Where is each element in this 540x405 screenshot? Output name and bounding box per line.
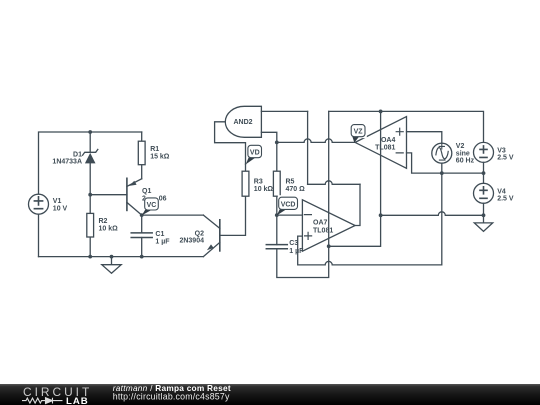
svg-text:VC: VC (147, 202, 157, 209)
wire top rail left (V1 top to R1 top) (39, 132, 142, 194)
node bottom rail C1 junction (140, 255, 144, 259)
svg-text:sine: sine (456, 150, 470, 157)
svg-text:VCD: VCD (281, 201, 296, 208)
node flag VC (142, 196, 159, 216)
wire top rail right (OA7 out column to V3 top) (329, 111, 484, 142)
wire Q2 base to R3 bottom (220, 196, 246, 235)
svg-text:1N4733A: 1N4733A (52, 159, 82, 166)
node D1 top junction (88, 130, 92, 134)
op-amp OA4 (TL081, mirrored) (355, 117, 406, 169)
label V2 value (456, 143, 475, 165)
wire V2 bottom down to OA7 + input run (298, 173, 442, 265)
label C3 value (289, 240, 304, 255)
wire AND2 top input (261, 110, 307, 112)
ground left (102, 257, 121, 274)
wire V1 bottom lead (38, 214, 40, 256)
node bottom rail ground junction (110, 255, 114, 259)
resistor R2 (87, 195, 94, 257)
voltage source V2 (sine) (432, 143, 452, 163)
node OA7 output junction (327, 244, 331, 248)
wire bottom rail left (39, 256, 204, 258)
node V3 bottom junction (482, 171, 486, 175)
wire OA7 output lead up to feedback row (355, 184, 360, 225)
label V3 value (497, 147, 514, 161)
node flag VZ (350, 123, 367, 143)
label R5 value (286, 178, 306, 192)
wire mid rail (x380 column to V4 bottom, hop over V2 column) (381, 212, 484, 215)
wire AND2 bottom input (261, 132, 276, 142)
svg-text:V1: V1 (53, 198, 62, 205)
node flag VD (246, 143, 264, 164)
resistor R5 (273, 142, 280, 215)
transistor Q1 (2N3906 PNP) (127, 178, 142, 215)
voltage source V1 (29, 194, 49, 214)
svg-text:VZ: VZ (354, 129, 364, 136)
label C1 value (155, 231, 170, 245)
wire VCD node to OA7 - input (277, 214, 303, 216)
node VCD junction (275, 213, 279, 217)
svg-text:15 kΩ: 15 kΩ (150, 154, 170, 161)
svg-text:R5: R5 (286, 178, 295, 185)
label V4 value (497, 188, 514, 202)
footer bar (0, 384, 540, 405)
svg-text:AND2: AND2 (233, 119, 252, 126)
svg-text:TL081: TL081 (375, 145, 395, 152)
svg-text:OA7: OA7 (313, 219, 328, 226)
voltage source V3 (474, 142, 494, 162)
label Q2 value (179, 230, 204, 244)
svg-text:10 kΩ: 10 kΩ (254, 186, 274, 193)
label R2 value (99, 218, 119, 232)
wire AND2 top input column x307 (307, 111, 309, 184)
svg-text:R1: R1 (150, 146, 159, 153)
voltage source V4 (474, 183, 494, 203)
svg-text:Q2: Q2 (195, 230, 204, 237)
label OA4 value (375, 137, 395, 152)
svg-text:60 Hz: 60 Hz (456, 158, 475, 165)
svg-text:V4: V4 (497, 188, 506, 195)
op-amp OA7 (TL081) (302, 200, 355, 251)
svg-text:V3: V3 (497, 147, 506, 154)
node flag VCD (277, 195, 299, 215)
wire OA4 - input to V2/V3 bottom rail (407, 153, 484, 173)
resistor R1 (138, 132, 145, 179)
capacitor C3 (266, 215, 328, 277)
svg-text:C3: C3 (289, 240, 298, 247)
svg-text:470 Ω: 470 Ω (286, 186, 306, 193)
svg-text:LAB: LAB (66, 396, 89, 405)
wire VC node to Q2 collector (142, 214, 204, 216)
svg-text:2N3904: 2N3904 (179, 237, 204, 244)
node bottom rail R2 junction (88, 255, 92, 259)
wire V4 bottom lead (483, 203, 485, 215)
footer logo squiggle (22, 398, 63, 403)
svg-text:2.5 V: 2.5 V (497, 155, 514, 162)
zener diode D1 (83, 132, 98, 195)
wire OA4 + input to V2 top (407, 132, 442, 144)
svg-text:R3: R3 (254, 178, 263, 185)
wire x328 column (top rail down through OA7 to output junction) (328, 111, 330, 246)
node V2 bottom junction (440, 171, 444, 175)
node VC junction (Q1 collector / C1 / Q2 collector) (140, 213, 144, 217)
ground right (474, 215, 492, 231)
svg-text:VD: VD (250, 150, 260, 157)
label Q1 value (142, 188, 167, 203)
node mid rail junction x380 (379, 213, 383, 217)
svg-text:2.5 V: 2.5 V (497, 196, 514, 203)
label D1 value (52, 151, 82, 165)
svg-text:10 kΩ: 10 kΩ (99, 226, 119, 233)
label R3 value (254, 178, 274, 192)
wire V3 to V4 (483, 162, 485, 183)
wire x380 column (top rail through OA4 down to C3 loop) (329, 111, 381, 246)
svg-text:10 V: 10 V (53, 205, 68, 212)
node D1/R2/Q1 base junction (88, 193, 92, 197)
label OA7 value (313, 219, 333, 234)
svg-text:D1: D1 (73, 151, 82, 158)
wire OA4 output to R5 top (with hops) (277, 139, 356, 143)
svg-text:OA4: OA4 (381, 137, 396, 144)
wire AND2 output to VD node (215, 122, 246, 164)
svg-text:Q1: Q1 (142, 188, 151, 195)
node R5 top junction (275, 141, 279, 145)
svg-text:V2: V2 (456, 143, 465, 150)
capacitor C1 (131, 215, 152, 257)
node top rail junction (379, 110, 383, 114)
svg-text:TL081: TL081 (313, 228, 333, 235)
gate AND2 (225, 106, 261, 137)
svg-text:http://circuitlab.com/c4s857y: http://circuitlab.com/c4s857y (113, 392, 230, 402)
wire feedback row y184 (to AND2 top input column, hop over x328) (308, 181, 360, 184)
wire V2 bottom lead (441, 163, 443, 173)
svg-text:C1: C1 (155, 231, 164, 238)
wire Q1 base (90, 194, 127, 196)
svg-text:1 µF: 1 µF (155, 238, 170, 245)
label R1 value (150, 146, 170, 160)
node V4 bottom / ground junction (482, 213, 486, 217)
transistor Q2 (2N3904 NPN) (203, 215, 219, 257)
svg-text:R2: R2 (99, 218, 108, 225)
resistor R3 (242, 164, 249, 196)
label V1 value (53, 198, 68, 212)
FOOTER (0, 383, 540, 405)
svg-text:1 µF: 1 µF (289, 248, 304, 255)
